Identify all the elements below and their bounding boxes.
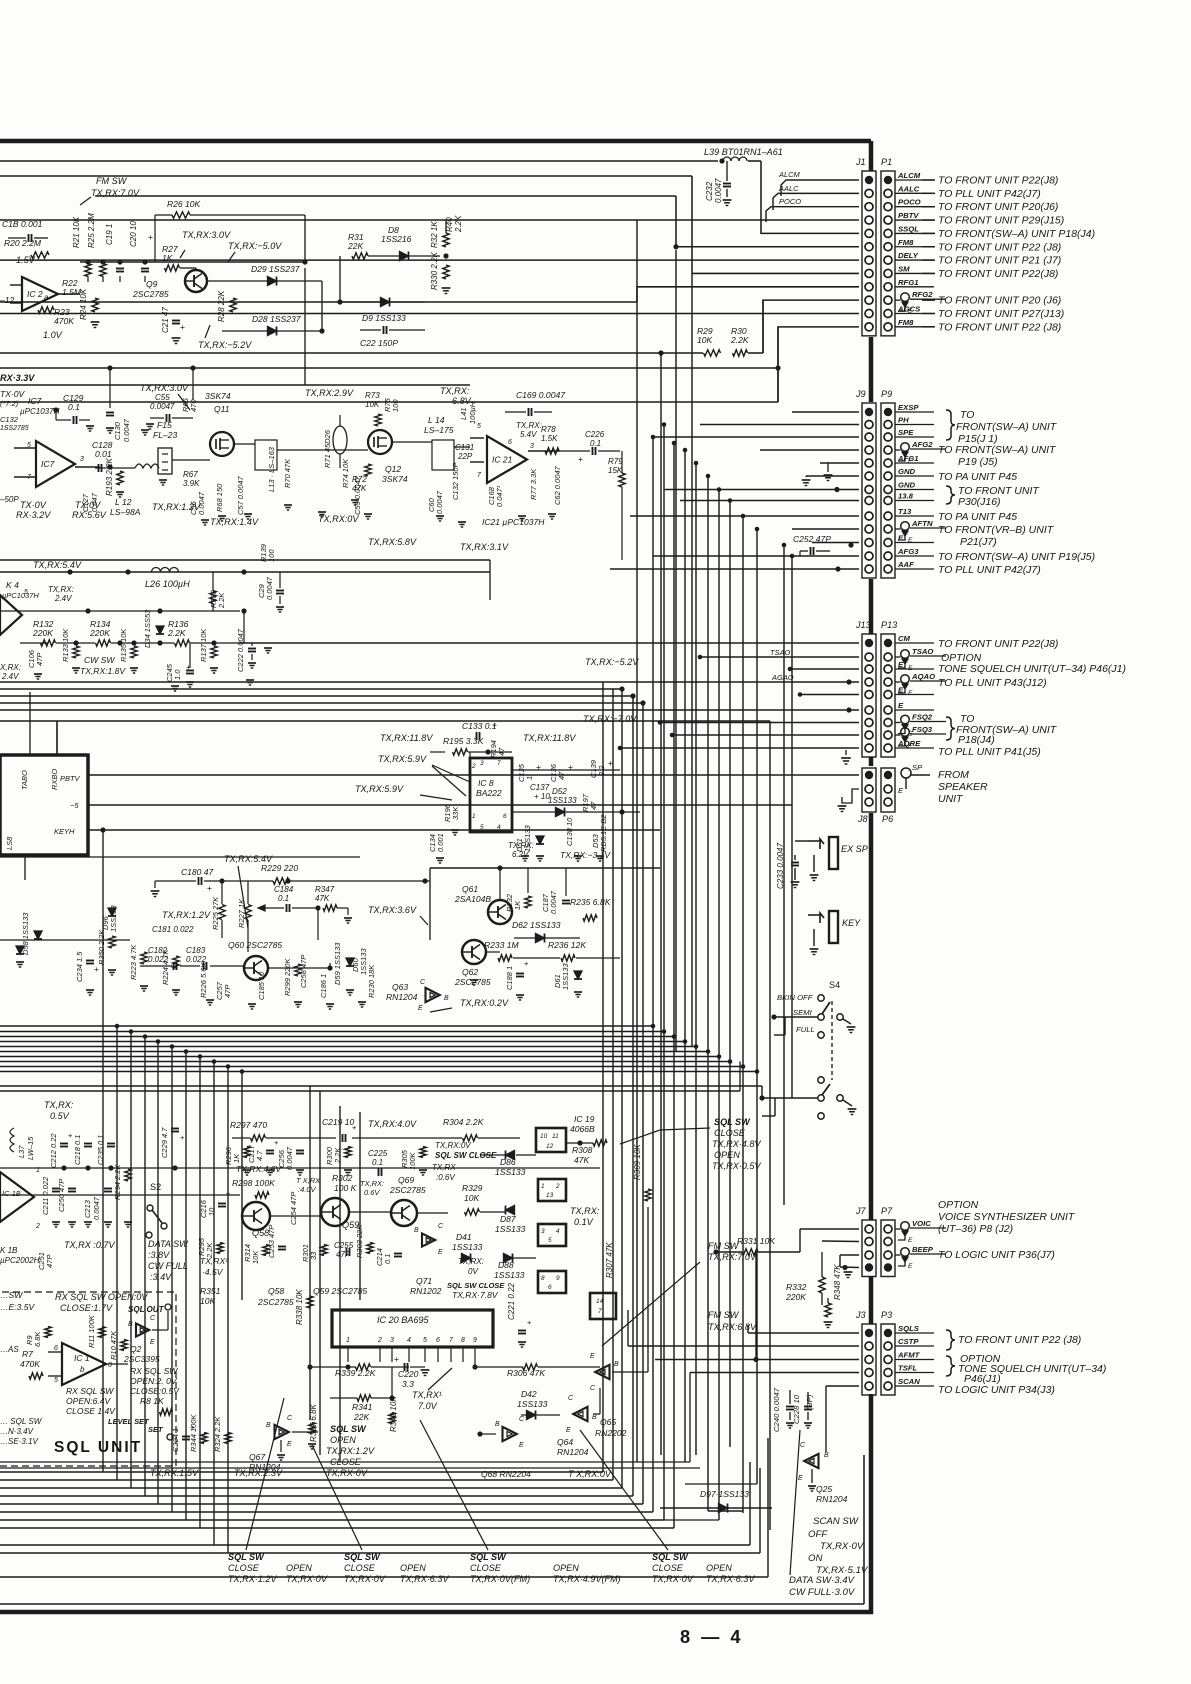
svg-text:TX,RX:4.6V: TX,RX:4.6V	[236, 1164, 282, 1174]
svg-text:TX,RX :0.7V: TX,RX :0.7V	[64, 1240, 115, 1250]
wire: bottom bus band	[0, 1471, 603, 1473]
svg-text:C169 0.0047: C169 0.0047	[516, 390, 566, 400]
svg-text:+: +	[524, 959, 528, 968]
svg-text:+: +	[394, 1354, 399, 1364]
wire: R31 net	[339, 256, 341, 302]
jack KEY	[829, 911, 838, 943]
svg-text:4: 4	[556, 1228, 560, 1235]
svg-text:C234 1.5: C234 1.5	[75, 951, 84, 982]
svg-text:TX,RX·0V: TX,RX·0V	[286, 1574, 328, 1584]
svg-text:2.2K: 2.2K	[454, 215, 463, 233]
svg-text:TO FRONT UNIT P22(J8): TO FRONT UNIT P22(J8)	[938, 269, 1058, 280]
svg-text:D41: D41	[456, 1232, 472, 1242]
svg-text:J13: J13	[855, 620, 871, 630]
svg-text:C258 47P: C258 47P	[299, 955, 308, 988]
svg-text:10K: 10K	[697, 335, 714, 345]
svg-text:R306 47K: R306 47K	[507, 1368, 546, 1378]
svg-text:TX,RX:0V: TX,RX:0V	[435, 1141, 471, 1150]
wire: J1 SM row	[0, 301, 637, 303]
svg-text:R21 10K: R21 10K	[72, 216, 81, 248]
svg-text:D87: D87	[500, 1214, 517, 1224]
svg-text:TO FRONT(SW–A) UNIT P18(J4): TO FRONT(SW–A) UNIT P18(J4)	[938, 229, 1095, 240]
svg-text:FRONT(SW–A) UNIT: FRONT(SW–A) UNIT	[956, 422, 1058, 433]
svg-text:1: 1	[541, 1183, 545, 1190]
svg-text:…SW: …SW	[0, 1290, 23, 1300]
svg-text:TO LOGIC UNIT P34(J3): TO LOGIC UNIT P34(J3)	[938, 1385, 1055, 1396]
svg-text:10: 10	[540, 1133, 548, 1140]
svg-text:100: 100	[267, 549, 276, 562]
svg-text:0.0047: 0.0047	[92, 1196, 101, 1220]
svg-text:OPEN: OPEN	[400, 1563, 426, 1573]
svg-text:TX,RX:7.0V: TX,RX:7.0V	[708, 1252, 757, 1262]
svg-text:22K: 22K	[347, 241, 365, 251]
svg-text:TX,RX:1.4V: TX,RX:1.4V	[210, 517, 259, 527]
svg-text:TO PLL UNIT P41(J5): TO PLL UNIT P41(J5)	[938, 747, 1041, 758]
connector J8/P6	[862, 768, 876, 812]
svg-text:0.1: 0.1	[278, 894, 289, 903]
svg-text:OPEN:2. 0V: OPEN:2. 0V	[130, 1376, 178, 1386]
svg-text:TX·0V: TX·0V	[0, 389, 26, 399]
svg-text:a: a	[44, 293, 49, 302]
svg-text:Q61: Q61	[462, 884, 478, 894]
svg-text:1K: 1K	[232, 1153, 241, 1163]
svg-text:LS8: LS8	[5, 836, 14, 850]
svg-text:5.4V: 5.4V	[520, 430, 537, 439]
svg-text:47K: 47K	[574, 1155, 591, 1165]
svg-text:33K: 33K	[451, 806, 460, 820]
svg-text:IC21 µPC1037H: IC21 µPC1037H	[482, 517, 545, 527]
svg-text:P1: P1	[881, 157, 892, 167]
svg-text:VOICE SYNTHESIZER UNIT: VOICE SYNTHESIZER UNIT	[938, 1212, 1076, 1223]
svg-text:2.2K: 2.2K	[167, 628, 187, 638]
svg-text:J8: J8	[857, 814, 868, 824]
svg-text:FL–23: FL–23	[153, 430, 177, 440]
svg-text:CLOSE:0.5V: CLOSE:0.5V	[130, 1386, 180, 1396]
svg-text:R309 10K: R309 10K	[633, 1144, 642, 1180]
svg-text:0.1V: 0.1V	[574, 1217, 594, 1227]
svg-text:4: 4	[497, 824, 501, 831]
svg-text:B: B	[444, 995, 449, 1002]
svg-text:RN1202: RN1202	[410, 1286, 442, 1296]
svg-text:TX,RX:1.2V: TX,RX:1.2V	[326, 1446, 375, 1456]
svg-text:1SS133: 1SS133	[452, 1242, 483, 1252]
svg-text:OPEN:6.4V: OPEN:6.4V	[66, 1396, 111, 1406]
svg-text:AQRE: AQRE	[897, 739, 921, 748]
svg-text:0.0047: 0.0047	[285, 1146, 294, 1170]
svg-text:OPEN: OPEN	[706, 1563, 732, 1573]
svg-text:TSAO: TSAO	[912, 647, 933, 656]
svg-text:1: 1	[346, 1337, 350, 1344]
svg-text:C132: C132	[0, 415, 19, 424]
svg-text:9: 9	[556, 1275, 560, 1282]
svg-text:7.0V: 7.0V	[418, 1401, 438, 1411]
wire: RXBO line y721 corner	[56, 721, 58, 755]
svg-text:L26 100µH: L26 100µH	[145, 579, 190, 589]
svg-text:TX,RX:4.0V: TX,RX:4.0V	[368, 1119, 417, 1129]
svg-text:P30(J16): P30(J16)	[958, 497, 1001, 508]
svg-text:R297 470: R297 470	[230, 1120, 267, 1130]
svg-text:B: B	[266, 1422, 271, 1429]
svg-text:C138 10: C138 10	[565, 817, 574, 846]
transistor Q70 RN1204	[422, 1233, 435, 1246]
svg-text:R73: R73	[365, 391, 380, 400]
wire: vertical bus bundle	[602, 682, 604, 1472]
svg-text:J1: J1	[855, 157, 866, 167]
svg-text:C252 47P: C252 47P	[793, 534, 831, 544]
svg-text:0.047¹: 0.047¹	[495, 485, 504, 507]
svg-text:R28 22K: R28 22K	[217, 290, 226, 322]
svg-text:…E:3.5V: …E:3.5V	[0, 1302, 36, 1312]
svg-text:B: B	[592, 1414, 597, 1421]
transistor Q12 3SK74	[368, 430, 392, 454]
svg-text:SCAN SW: SCAN SW	[813, 1516, 859, 1527]
svg-text:4: 4	[407, 1337, 411, 1344]
svg-text:D42: D42	[521, 1389, 537, 1399]
svg-text:AQAO: AQAO	[911, 672, 935, 681]
svg-text:AALC: AALC	[897, 184, 920, 193]
svg-text:IC 1B: IC 1B	[2, 1189, 21, 1198]
svg-text:CLOSE 1.4V: CLOSE 1.4V	[66, 1406, 116, 1416]
svg-text:4066B: 4066B	[570, 1124, 595, 1134]
svg-text:TX,RX:11.8V: TX,RX:11.8V	[380, 733, 433, 743]
svg-text:FSQ3: FSQ3	[912, 725, 933, 734]
svg-text:3SK74: 3SK74	[382, 474, 408, 484]
connector J3/P3	[862, 1324, 876, 1395]
svg-text:C253 47P: C253 47P	[267, 1225, 276, 1258]
svg-text:22K: 22K	[353, 1412, 371, 1422]
svg-text:TO FRONT(VR–B) UNIT: TO FRONT(VR–B) UNIT	[938, 525, 1055, 536]
transistor Q58	[242, 1202, 270, 1230]
svg-text:P18(J4): P18(J4)	[958, 735, 995, 746]
wire: AALC arc to J1	[773, 193, 859, 210]
svg-text:(*7.2): (*7.2)	[0, 399, 19, 408]
svg-text::3.8V: :3.8V	[148, 1250, 170, 1260]
svg-text:C228 10: C228 10	[792, 1394, 801, 1424]
svg-text:5: 5	[480, 824, 484, 831]
wire: J1 AGCS row	[0, 313, 859, 315]
svg-text:FM SW: FM SW	[708, 1241, 740, 1251]
svg-text:2SC2785: 2SC2785	[389, 1185, 426, 1195]
svg-text:Q68 RN2204: Q68 RN2204	[481, 1469, 531, 1479]
svg-text:TX,RX·0V: TX,RX·0V	[326, 1468, 368, 1478]
svg-text:P46(J1): P46(J1)	[964, 1374, 1001, 1385]
wire: POCO arc to J1	[766, 207, 859, 222]
svg-text:2SA104B: 2SA104B	[454, 894, 491, 904]
svg-text:L 12: L 12	[115, 497, 132, 507]
svg-text:2: 2	[555, 1183, 560, 1190]
svg-text:47: 47	[589, 801, 598, 810]
svg-text:OPEN: OPEN	[286, 1563, 312, 1573]
op-amp IC21	[487, 436, 527, 483]
svg-text:C229 4.7: C229 4.7	[160, 1127, 169, 1158]
svg-text:C22 150P: C22 150P	[360, 338, 398, 348]
svg-text:RN2202: RN2202	[595, 1428, 627, 1438]
svg-text:47K: 47K	[315, 894, 330, 903]
wire: q60 band mesh	[0, 939, 130, 941]
svg-text:FM8: FM8	[898, 238, 914, 247]
svg-text:R236 12K: R236 12K	[548, 940, 587, 950]
svg-text:1: 1	[525, 776, 534, 780]
svg-text:C21 47: C21 47	[161, 307, 170, 333]
svg-text:E: E	[519, 1442, 524, 1449]
svg-text:1SS2785: 1SS2785	[0, 425, 29, 432]
svg-text:+: +	[352, 1123, 356, 1132]
svg-text:TX,RX:5.8V: TX,RX:5.8V	[368, 537, 417, 547]
svg-text:1.0: 1.0	[173, 669, 182, 680]
svg-text:OPTION: OPTION	[938, 1200, 979, 1211]
svg-text:TX,RX·1.2V: TX,RX·1.2V	[228, 1574, 277, 1584]
svg-text:TX,RX:11.8V: TX,RX:11.8V	[523, 733, 576, 743]
svg-text:SCAN: SCAN	[898, 1377, 920, 1386]
svg-text:R20 2.2M: R20 2.2M	[4, 238, 42, 248]
svg-text:EX SP: EX SP	[841, 844, 868, 854]
svg-text:D52: D52	[552, 787, 567, 796]
svg-text:C185 10: C185 10	[257, 971, 266, 1000]
svg-text:SPEAKER: SPEAKER	[938, 782, 988, 793]
svg-text:2.4V: 2.4V	[1, 672, 19, 681]
wire: left vertical bundle	[102, 830, 104, 1472]
ground: IC8 grounds	[436, 857, 444, 859]
wire: IF interconnects	[95, 467, 135, 469]
svg-text:R67: R67	[183, 470, 198, 479]
svg-text:0.0047: 0.0047	[150, 402, 175, 411]
svg-text:2: 2	[377, 1337, 382, 1344]
svg-text:8: 8	[461, 1337, 465, 1344]
svg-text:TO FRONT UNIT P21 (J7): TO FRONT UNIT P21 (J7)	[938, 256, 1061, 267]
transistor Q68 RN2204	[503, 1427, 517, 1441]
svg-text:IC 20 BA695: IC 20 BA695	[377, 1315, 430, 1325]
transistor Q2 2SC3395	[136, 1323, 149, 1336]
svg-text:…SE·3.1V: …SE·3.1V	[0, 1437, 39, 1446]
svg-text:10K: 10K	[200, 1296, 217, 1306]
svg-text:TO FRONT UNIT P22(J8): TO FRONT UNIT P22(J8)	[938, 176, 1058, 187]
svg-text:R7: R7	[22, 1349, 34, 1359]
svg-text:3.3: 3.3	[402, 1379, 414, 1389]
svg-text:220K: 220K	[89, 628, 111, 638]
svg-text:RFG1: RFG1	[898, 278, 919, 287]
svg-text:TX,RX·6.3V: TX,RX·6.3V	[706, 1574, 755, 1584]
svg-text:R338 10K: R338 10K	[295, 1289, 304, 1325]
svg-text:C130: C130	[113, 421, 122, 440]
svg-text:CW FULL·3.0V: CW FULL·3.0V	[789, 1587, 856, 1598]
svg-text:R329: R329	[462, 1183, 483, 1193]
svg-text:FM SW: FM SW	[708, 1310, 740, 1320]
svg-text:SPE: SPE	[898, 428, 914, 437]
svg-text:C226: C226	[585, 430, 605, 439]
svg-text:−5: −5	[70, 801, 79, 810]
svg-text:+: +	[148, 232, 153, 242]
svg-text:VOIC: VOIC	[912, 1219, 931, 1228]
svg-text:C20 10: C20 10	[129, 221, 138, 247]
svg-text:5: 5	[24, 589, 28, 596]
svg-text:–50P: –50P	[0, 495, 19, 504]
svg-text:R195 3.3K: R195 3.3K	[443, 736, 485, 746]
svg-text:KEYH: KEYH	[54, 827, 75, 836]
svg-text:CLOSE: CLOSE	[714, 1128, 746, 1138]
svg-text:R351: R351	[200, 1286, 221, 1296]
svg-text:TX,RX:1.2V: TX,RX:1.2V	[152, 502, 201, 512]
svg-text:C213: C213	[83, 1199, 92, 1218]
svg-text:TO PA UNIT P45: TO PA UNIT P45	[938, 512, 1017, 523]
svg-text:100 K: 100 K	[334, 1183, 358, 1193]
svg-text:P15(J 1): P15(J 1)	[958, 434, 998, 445]
wire: top bus line 1	[0, 160, 718, 162]
wire: ALCM arc to J1	[781, 180, 859, 196]
svg-text:470K: 470K	[20, 1359, 41, 1369]
svg-text:LS–98A: LS–98A	[110, 507, 141, 517]
svg-text:2.2K: 2.2K	[730, 335, 750, 345]
wire stubs into J7	[800, 1228, 859, 1230]
svg-text:R32 1K: R32 1K	[430, 221, 439, 248]
svg-text:22P: 22P	[457, 452, 473, 461]
wire: J7 row feeds	[755, 1252, 757, 1360]
svg-text:TO PLL UNIT P42(J7): TO PLL UNIT P42(J7)	[938, 189, 1041, 200]
diode D50	[16, 946, 24, 954]
svg-text:GND: GND	[898, 467, 916, 476]
svg-text:47: 47	[557, 771, 566, 780]
ground: band3 grounds	[34, 673, 42, 675]
svg-text:2.2K: 2.2K	[333, 1147, 342, 1164]
svg-text:9: 9	[473, 1337, 477, 1344]
svg-text:µPC1037H: µPC1037H	[2, 591, 39, 600]
svg-text:C219 10: C219 10	[322, 1117, 355, 1127]
svg-text:6.2V: 6.2V	[512, 850, 529, 859]
svg-text:IC 19: IC 19	[574, 1114, 595, 1124]
svg-text:+: +	[207, 883, 212, 893]
svg-text:AFG1: AFG1	[897, 454, 919, 463]
label Q67 wires	[292, 1431, 318, 1433]
wire: main board border bottom	[0, 1610, 873, 1615]
transistor Q11 3SK74	[210, 432, 234, 456]
svg-text:Q11: Q11	[214, 404, 230, 414]
svg-text:D34 1SS53: D34 1SS53	[143, 609, 152, 648]
svg-text:C180 47: C180 47	[181, 867, 215, 877]
svg-text:T13: T13	[898, 507, 912, 516]
svg-text:CW SW: CW SW	[84, 655, 115, 665]
svg-text:SQL SW: SQL SW	[330, 1424, 367, 1434]
svg-text:OFF: OFF	[808, 1529, 828, 1540]
svg-text:E: E	[898, 786, 904, 795]
svg-text:R8 1K: R8 1K	[140, 1396, 165, 1406]
ground: q60 band grounds	[140, 985, 148, 987]
svg-text:TX,RX·0V(FM): TX,RX·0V(FM)	[470, 1574, 530, 1584]
svg-text:AFTN: AFTN	[911, 519, 933, 528]
svg-text:6: 6	[436, 1337, 440, 1344]
svg-text:SQLS: SQLS	[898, 1324, 920, 1333]
svg-text:RXBO: RXBO	[50, 769, 59, 790]
svg-text:220K: 220K	[785, 1292, 807, 1302]
wire: band y860	[0, 856, 360, 858]
svg-text:RN1204: RN1204	[816, 1494, 848, 1504]
svg-text:R347: R347	[315, 885, 335, 894]
svg-text:R24 10K: R24 10K	[79, 288, 88, 320]
svg-text:IC 21: IC 21	[492, 455, 513, 465]
svg-text:C224 1: C224 1	[171, 1428, 180, 1452]
svg-text:C225: C225	[368, 1149, 388, 1158]
svg-text:DATA SW: DATA SW	[148, 1239, 189, 1249]
svg-text:PH: PH	[898, 416, 909, 425]
svg-text:RX SQL SW: RX SQL SW	[130, 1366, 178, 1376]
svg-text:RN1204: RN1204	[249, 1462, 281, 1472]
svg-text:3: 3	[480, 760, 484, 767]
svg-text:C232: C232	[705, 181, 714, 201]
svg-text:47P: 47P	[223, 985, 232, 998]
wire: bus B extra lines	[0, 1085, 762, 1087]
svg-text:E: E	[908, 690, 913, 697]
svg-text:220K: 220K	[32, 628, 54, 638]
svg-text:+: +	[180, 322, 185, 332]
svg-text:8: 8	[541, 1275, 545, 1282]
svg-text:C235 0.1: C235 0.1	[96, 1135, 105, 1165]
wire: bus y368	[0, 367, 778, 369]
svg-text:TO FRONT UNIT: TO FRONT UNIT	[958, 486, 1040, 497]
svg-text:5: 5	[54, 1377, 58, 1384]
svg-text:R25 2.2M: R25 2.2M	[87, 213, 96, 248]
wire: main board border top	[0, 139, 871, 144]
svg-text:TX,RX:5.4V: TX,RX:5.4V	[33, 560, 82, 570]
svg-text:2SC2785: 2SC2785	[454, 977, 491, 987]
svg-text:1SS133: 1SS133	[517, 1399, 548, 1409]
svg-text:Q9: Q9	[146, 279, 158, 289]
svg-text:C186 1: C186 1	[319, 974, 328, 998]
wire: box pins	[29, 692, 31, 755]
svg-text:TX,RX·0V: TX,RX·0V	[820, 1541, 865, 1552]
svg-text:C254 47P: C254 47P	[289, 1192, 298, 1225]
wire: band4 rail	[0, 1167, 600, 1169]
svg-text:E: E	[287, 1441, 292, 1448]
svg-text:SM: SM	[898, 264, 910, 273]
svg-text:K 1B: K 1B	[0, 1246, 18, 1255]
wire: IC8 net	[430, 751, 445, 753]
transistor Q64 RN1204	[573, 1407, 587, 1421]
svg-text:SQL SW: SQL SW	[652, 1552, 689, 1562]
svg-text:TX,RX:7.0V: TX,RX:7.0V	[91, 188, 140, 198]
jack EX SP	[829, 837, 838, 869]
wire: q62 mesh	[486, 951, 500, 953]
svg-text:TX,RXᶜ: TX,RXᶜ	[200, 1256, 229, 1266]
svg-text:CLOSE: CLOSE	[470, 1563, 502, 1573]
svg-text:Q71: Q71	[416, 1276, 432, 1286]
svg-text:R223 4.7K: R223 4.7K	[129, 944, 138, 980]
svg-text:TO FRONT UNIT P22 (J8): TO FRONT UNIT P22 (J8)	[938, 242, 1061, 253]
svg-text:E: E	[908, 1263, 913, 1270]
wire: J13 row stubs	[240, 642, 859, 644]
svg-text:8 — 4: 8 — 4	[680, 1627, 744, 1647]
svg-text:+: +	[226, 1189, 230, 1198]
wire: ic20 area mesh	[391, 1367, 393, 1398]
svg-text:TO PLL UNIT P43(J12): TO PLL UNIT P43(J12)	[938, 678, 1047, 689]
svg-text:C240 0.0047: C240 0.0047	[772, 1387, 781, 1432]
svg-text:R193 2.2K: R193 2.2K	[105, 457, 114, 496]
svg-text:KEY: KEY	[842, 918, 861, 928]
svg-text:PBTV: PBTV	[60, 774, 81, 783]
svg-text:5: 5	[477, 423, 481, 430]
svg-text:TX,RX:1.5V: TX,RX:1.5V	[150, 1468, 199, 1478]
svg-text:0: 0	[108, 1362, 112, 1369]
ground: cap cluster grounds	[52, 1221, 60, 1223]
svg-text:D28 1SS237: D28 1SS237	[252, 314, 302, 324]
svg-text:…AS: …AS	[0, 1345, 19, 1354]
svg-text:µPC1037H: µPC1037H	[20, 407, 60, 416]
svg-text:E: E	[566, 1427, 571, 1434]
svg-text:R68 150: R68 150	[215, 483, 224, 512]
svg-text:TX,RX:−5.2V: TX,RX:−5.2V	[585, 657, 639, 667]
svg-text:6.8K: 6.8K	[33, 1331, 42, 1347]
svg-text:TO FRONT UNIT P29(J15): TO FRONT UNIT P29(J15)	[938, 216, 1064, 227]
svg-text:TX,RX:2.9V: TX,RX:2.9V	[305, 388, 354, 398]
svg-text:R299 220K: R299 220K	[283, 958, 292, 996]
IC20 BA695 box	[332, 1310, 493, 1347]
